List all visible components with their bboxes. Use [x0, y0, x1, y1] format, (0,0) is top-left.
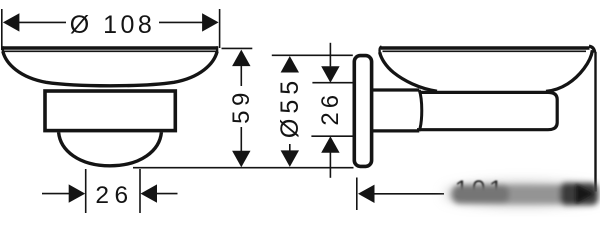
dim Ø55: lower line segment [289, 144, 291, 151]
dim Ø108: left extension line [1, 9, 3, 50]
dim 59: upper arrowhead [232, 50, 250, 67]
dim 59: top extension line [222, 47, 253, 49]
front view: dish rim right edge [216, 46, 218, 53]
dim Ø55: top extension line [272, 54, 353, 56]
side view: wall plate [354, 56, 371, 167]
side view: dish rim right corner [589, 46, 595, 52]
dim Ø108: left arrowhead [3, 13, 20, 31]
side view: ferrule bottom line [372, 129, 419, 132]
front view: holder collar rectangle [45, 91, 175, 131]
side view: dish rim top line [381, 46, 590, 50]
svg-text:Ø55: Ø55 [276, 76, 304, 138]
front view: dish bowl underside curve [3, 52, 217, 86]
dim 101: left extension line [356, 178, 358, 211]
side view: holder bar [417, 92, 557, 129]
censor smudge halo [445, 183, 600, 205]
censor smudge bar [451, 183, 598, 205]
dim 59: lower line segment [240, 127, 242, 152]
front view: holder dome bottom [59, 132, 162, 166]
side view: dish underside right curve [546, 50, 592, 91]
svg-text:Ø 108: Ø 108 [70, 11, 156, 39]
dim Ø108: dimension line left segment [18, 21, 66, 23]
side view: ferrule right edge [419, 90, 421, 131]
dim 101: right arrowhead (smudged) [576, 184, 594, 203]
dim 59: lower arrowhead [232, 151, 250, 168]
svg-text:59: 59 [228, 88, 255, 124]
front view: dish rim left edge [2, 46, 4, 53]
dim 26 front: left leader line [42, 193, 70, 195]
front view: dish rim top line [2, 46, 218, 50]
svg-text:26: 26 [317, 91, 344, 126]
dim 26 side: upper arrowhead (points down) [321, 66, 339, 83]
side view: dish underside left curve [380, 52, 437, 91]
dim 26 front: right leader line [157, 193, 178, 195]
shared bottom extension line (dome bottom / plate bottom) [133, 167, 354, 169]
dim 26 side: lower arrowhead (points up) [321, 136, 339, 153]
dim 101: left arrowhead [358, 185, 375, 203]
side view: dish rim left end [380, 46, 382, 52]
dim 26 front: right arrowhead [141, 184, 158, 202]
dim Ø55: lower arrowhead [281, 150, 299, 167]
dim 101: dimension line left segment [374, 193, 444, 195]
svg-text:26: 26 [95, 182, 133, 209]
dim 101: right extension line [594, 52, 596, 192]
dim Ø108: dimension line right segment [159, 21, 203, 23]
dim Ø108: right arrowhead [202, 13, 219, 31]
dim 26 side: upper line segment [329, 43, 331, 67]
dim 26 side: upper tick line [312, 82, 352, 84]
side view: dish rim inner line [383, 50, 587, 52]
dim 101: value label (partially censored) [455, 176, 506, 203]
dim Ø108: right extension line [219, 9, 221, 48]
front view: dish rim inner line [4, 50, 217, 52]
dim 26 front: left extension line [85, 169, 87, 213]
dim 26 front: left arrowhead [69, 184, 86, 202]
dim 26 front: right extension line [139, 169, 141, 213]
dim Ø55: upper arrowhead [281, 56, 299, 73]
dim 59: upper line segment [240, 65, 242, 86]
dim 26 side: lower tick line [311, 135, 353, 137]
dim 26 side: lower line segment [329, 152, 331, 177]
side view: ferrule top line [372, 88, 419, 91]
